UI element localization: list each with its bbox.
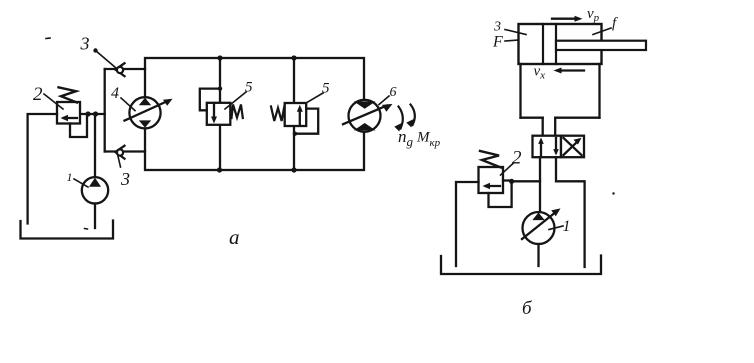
svg-text:3: 3 [120, 169, 130, 189]
svg-text:2: 2 [33, 84, 43, 105]
svg-text:f: f [612, 16, 618, 32]
svg-text:F: F [492, 34, 503, 51]
svg-text:6: 6 [390, 85, 397, 100]
svg-text:1: 1 [67, 170, 73, 184]
svg-text:a: a [229, 225, 240, 249]
svg-text:1: 1 [563, 218, 571, 235]
svg-text:3: 3 [80, 34, 90, 54]
svg-text:3: 3 [493, 20, 501, 35]
svg-text:5: 5 [245, 80, 253, 96]
svg-text:ng: ng [398, 127, 414, 149]
svg-text:vx: vx [534, 64, 546, 82]
svg-text:Mкр: Mкр [416, 130, 441, 150]
svg-text:4: 4 [111, 85, 119, 102]
svg-text:vp: vp [587, 6, 600, 24]
svg-text:б: б [522, 298, 533, 319]
svg-text:2: 2 [512, 148, 522, 169]
svg-text:5: 5 [322, 81, 330, 97]
